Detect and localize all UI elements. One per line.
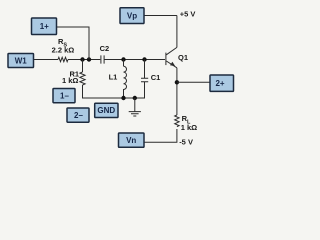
svg-text:+5 V: +5 V [180, 10, 196, 19]
svg-text:2+: 2+ [215, 79, 224, 88]
resistor RL zigzag [175, 115, 179, 127]
wire to 2+ box [177, 81, 210, 83]
wire C1 branch top [144, 60, 146, 79]
inductor L1 coil [124, 66, 127, 98]
wire Vp to collector line [143, 15, 177, 17]
terminal box 2- [67, 108, 89, 122]
wire L1 branch [123, 60, 125, 67]
transistor Q1 emitter diagonal [166, 61, 177, 68]
terminal box 1+ [32, 18, 57, 35]
wire RS to C2 [68, 59, 100, 61]
terminal box Vn [119, 133, 145, 147]
svg-text:2.2 kΩ: 2.2 kΩ [52, 46, 75, 55]
node junction to R1 [80, 57, 84, 61]
svg-text:GND: GND [97, 106, 115, 115]
transistor Q1 collector diagonal [166, 47, 177, 54]
terminal box 2+ [210, 75, 234, 91]
svg-text:Q1: Q1 [178, 53, 188, 62]
wire R1 top [82, 60, 84, 73]
terminal box GND [95, 103, 118, 117]
resistor RS zigzag [58, 57, 68, 61]
node ground tap [133, 96, 137, 100]
wire emitter down [176, 68, 178, 115]
node junction to 1+ [87, 57, 91, 61]
wire collector up [176, 16, 178, 48]
svg-text:1–: 1– [60, 91, 69, 100]
node emitter output [175, 80, 179, 84]
svg-text:1+: 1+ [40, 22, 49, 31]
node L1 top [121, 57, 125, 61]
svg-text:W1: W1 [15, 56, 28, 65]
resistor R1 zigzag [80, 72, 85, 85]
capacitor C1 plates [141, 78, 148, 82]
wire C2 to base [104, 59, 165, 61]
terminal box Vp [120, 8, 144, 24]
wire R1 bottom to rail [83, 85, 146, 98]
node L1 bottom [121, 96, 125, 100]
wire W1 to RS [33, 59, 58, 61]
node C1 top [142, 57, 146, 61]
transistor Q1 base bar [165, 53, 167, 66]
wire RL bottom to Vn [144, 129, 177, 142]
capacitor C2 plates [101, 55, 104, 63]
wire C1 bottom [144, 82, 146, 98]
svg-text:-5 V: -5 V [179, 138, 193, 147]
ground symbol [129, 98, 141, 116]
svg-text:2–: 2– [74, 111, 83, 120]
svg-text:1 kΩ: 1 kΩ [62, 76, 78, 85]
terminal box W1 [8, 54, 34, 68]
terminal box 1- [53, 89, 75, 103]
svg-text:Vn: Vn [126, 136, 136, 145]
wire 1+ box down to main line [57, 27, 90, 60]
transistor Q1 emitter arrow [170, 62, 175, 66]
svg-text:C1: C1 [151, 73, 161, 82]
svg-text:Vp: Vp [127, 11, 137, 20]
svg-text:1 kΩ: 1 kΩ [181, 123, 197, 132]
svg-text:C2: C2 [100, 44, 110, 53]
svg-text:L1: L1 [109, 72, 118, 81]
